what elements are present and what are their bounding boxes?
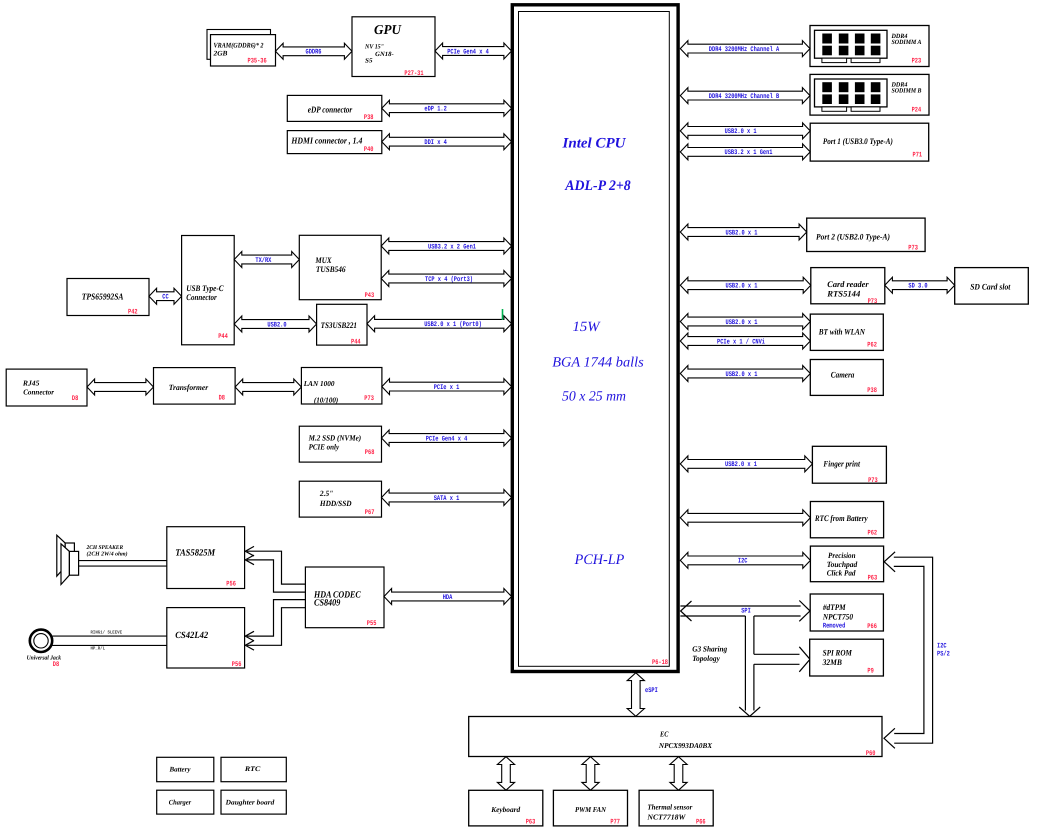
svg-text:USB2.0: USB2.0	[267, 321, 286, 329]
svg-text:Finger print: Finger print	[823, 459, 861, 469]
svg-text:HDD/SSD: HDD/SSD	[319, 499, 352, 508]
svg-text:Precision: Precision	[828, 551, 856, 560]
svg-text:Thermal sensor: Thermal sensor	[647, 803, 692, 812]
DDR4 SODIMM A block	[810, 26, 929, 67]
svg-text:NPCT750: NPCT750	[822, 611, 854, 621]
svg-text:EC: EC	[659, 730, 669, 739]
svg-text:PCIe Gen4 x 4: PCIe Gen4 x 4	[447, 48, 489, 56]
svg-text:D8: D8	[53, 661, 59, 669]
svg-text:P43: P43	[365, 292, 375, 300]
dTPM NPCT750 block	[810, 594, 883, 631]
CS42L42 block	[167, 608, 245, 669]
svg-text:Removed: Removed	[823, 622, 845, 631]
svg-text:PCIe x 1 / CNVi: PCIe x 1 / CNVi	[717, 337, 765, 346]
wire SPI channel down to EC	[739, 616, 760, 716]
svg-text:P27-31: P27-31	[404, 70, 423, 78]
svg-text:M.2 SSD (NVMe): M.2 SSD (NVMe)	[308, 434, 362, 443]
svg-text:2CH SPEAKER: 2CH SPEAKER	[86, 545, 124, 551]
svg-text:P68: P68	[365, 449, 375, 457]
svg-text:eSPI: eSPI	[645, 687, 658, 695]
svg-text:DDI x 4: DDI x 4	[424, 139, 446, 147]
svg-text:D8: D8	[219, 395, 225, 403]
svg-text:PWM FAN: PWM FAN	[575, 805, 607, 814]
VRAM GDDR6 block	[207, 30, 276, 67]
svg-text:USB2.0 x 1: USB2.0 x 1	[725, 128, 757, 136]
wire USB2.0 x1 Camera	[680, 366, 810, 382]
svg-text:P38: P38	[364, 114, 374, 122]
svg-text:Connector: Connector	[23, 387, 54, 396]
svg-text:P24: P24	[912, 106, 922, 114]
svg-text:SODIMM A: SODIMM A	[892, 39, 923, 46]
svg-text:SD Card slot: SD Card slot	[970, 282, 1011, 292]
MUX TUSB546 block	[299, 235, 381, 300]
svg-text:USB2.0 x 1: USB2.0 x 1	[726, 371, 758, 379]
wire I2C touchpad	[680, 552, 810, 568]
svg-text:15W: 15W	[573, 319, 601, 335]
svg-text:NCT7718W: NCT7718W	[646, 813, 686, 822]
wire audio HDA-TAS upper	[245, 546, 305, 584]
svg-text:P38: P38	[867, 387, 877, 395]
G3 Sharing Topology note	[692, 645, 727, 663]
svg-text:GDDR6: GDDR6	[306, 49, 322, 57]
wire USB2.0 x1 Port0	[367, 316, 512, 332]
svg-text:SODIMM B: SODIMM B	[892, 88, 923, 95]
svg-text:USB2.0 x 1: USB2.0 x 1	[726, 229, 758, 237]
wire audio HDA-TAS lower	[245, 555, 305, 592]
wire eDP 1.2	[382, 100, 512, 116]
wire EC-Keyboard	[497, 757, 514, 791]
svg-text:Port 1 (USB3.0 Type-A): Port 1 (USB3.0 Type-A)	[823, 136, 893, 146]
svg-text:USB2.0 x 1: USB2.0 x 1	[726, 319, 758, 327]
wire DDR4 Channel A	[680, 41, 810, 57]
svg-text:P44: P44	[218, 333, 228, 341]
wire EC-Thermal sensor	[670, 757, 687, 791]
CPU block U1 Intel ADL-P	[512, 5, 678, 672]
svg-text:P62: P62	[868, 529, 878, 537]
wire HDA	[384, 589, 512, 605]
BT with WLAN block	[810, 314, 883, 350]
wire audio HDA-CS42 upper	[245, 600, 305, 641]
svg-text:VRAM(GDDR6)* 2: VRAM(GDDR6)* 2	[214, 42, 264, 50]
svg-text:(2CH 2W/4 ohm): (2CH 2W/4 ohm)	[87, 551, 128, 558]
speaker label	[86, 545, 128, 558]
svg-text:USB2.0 x 1: USB2.0 x 1	[725, 461, 757, 469]
wire USB2.0 TypeC-TS3	[234, 316, 316, 332]
wire GDDR6 VRAM-GPU	[276, 43, 353, 59]
svg-text:RJ45: RJ45	[22, 379, 40, 388]
speaker icon	[57, 535, 79, 584]
svg-text:RTC: RTC	[244, 765, 261, 773]
svg-text:I2C: I2C	[738, 558, 748, 566]
wire EC-PWM FAN	[582, 757, 599, 791]
svg-text:P66: P66	[867, 623, 877, 631]
svg-text:RTC from Battery: RTC from Battery	[814, 513, 868, 523]
GPU block	[352, 17, 435, 78]
svg-text:P67: P67	[365, 509, 375, 517]
svg-text:I2C: I2C	[937, 642, 947, 650]
svg-text:(10/100): (10/100)	[314, 396, 339, 405]
svg-text:Camera: Camera	[831, 370, 855, 380]
Keyboard block	[469, 790, 543, 826]
svg-text:P35-36: P35-36	[248, 57, 267, 65]
svg-text:USB2.0 x 1: USB2.0 x 1	[726, 283, 758, 291]
svg-text:RTS5144: RTS5144	[826, 289, 860, 299]
svg-text:P73: P73	[868, 298, 878, 306]
Battery block	[157, 757, 214, 781]
svg-text:2GB: 2GB	[212, 50, 227, 58]
svg-text:P40: P40	[364, 146, 374, 154]
svg-text:P63: P63	[526, 819, 536, 827]
universal jack icon	[27, 630, 62, 670]
wire SATA x1	[382, 490, 512, 506]
wire I2C PS2 EC-Touchpad	[884, 552, 950, 749]
svg-text:Transformer: Transformer	[169, 383, 209, 392]
wire RTC battery	[680, 510, 810, 526]
wire USB3.2 x1 Gen1 Port1	[680, 144, 810, 160]
svg-text:S5: S5	[365, 58, 373, 65]
Finger print block	[812, 446, 886, 485]
svg-text:TX/RX: TX/RX	[255, 256, 272, 265]
svg-text:GN18-: GN18-	[375, 51, 394, 58]
svg-text:P56: P56	[226, 580, 236, 588]
svg-text:TAS5825M: TAS5825M	[175, 549, 215, 559]
svg-text:DDR4 3200MHz Channel A: DDR4 3200MHz Channel A	[709, 45, 780, 54]
wire PCIe x1 LAN-CPU	[382, 379, 512, 395]
svg-text:USB2.0 x 1 (Port0): USB2.0 x 1 (Port0)	[424, 320, 482, 329]
TAS5825M block	[167, 527, 245, 589]
Port1 USB3 Type-A block	[810, 123, 929, 161]
svg-text:D8: D8	[72, 395, 78, 403]
svg-text:Intel CPU: Intel CPU	[561, 135, 627, 151]
wire SD 3.0	[885, 277, 955, 293]
wire jack lines	[53, 630, 167, 652]
svg-text:PCIe x 1: PCIe x 1	[434, 384, 460, 392]
svg-text:eDP 1.2: eDP 1.2	[424, 106, 446, 114]
LAN 1000 block	[301, 368, 382, 405]
svg-text:PCIE only: PCIE only	[309, 442, 340, 451]
SPI ROM block	[810, 639, 884, 676]
svg-text:P44: P44	[351, 339, 361, 347]
HDA CODEC block	[305, 567, 384, 628]
svg-text:SATA x 1: SATA x 1	[434, 495, 460, 503]
svg-text:USB3.2 x 1 Gen1: USB3.2 x 1 Gen1	[725, 149, 773, 157]
svg-text:TCP x 4 (Port3): TCP x 4 (Port3)	[425, 275, 473, 284]
svg-text:HDA: HDA	[443, 594, 453, 602]
RTC from Battery block	[810, 502, 883, 538]
svg-text:G3 Sharing: G3 Sharing	[692, 645, 727, 654]
DDR4 SODIMM B block	[810, 74, 929, 115]
EC block NPCX993DA0BX	[469, 717, 882, 758]
RTC block	[221, 757, 286, 781]
svg-text:P73: P73	[868, 477, 878, 485]
svg-text:Card reader: Card reader	[827, 279, 869, 289]
Precision Touchpad block	[810, 546, 883, 582]
svg-text:32MB: 32MB	[822, 657, 842, 667]
svg-text:P63: P63	[868, 574, 878, 582]
svg-text:GPU: GPU	[374, 22, 402, 37]
svg-text:ADL-P 2+8: ADL-P 2+8	[564, 178, 631, 194]
svg-text:NPCX993DA0BX: NPCX993DA0BX	[658, 741, 713, 750]
wire Transformer-LAN	[235, 379, 301, 395]
svg-text:Click Pad: Click Pad	[827, 568, 857, 577]
svg-text:SPI: SPI	[741, 608, 751, 616]
2.5in HDD/SSD block	[299, 481, 381, 517]
wire TX/RX	[234, 252, 299, 268]
svg-text:PCIe Gen4 x 4: PCIe Gen4 x 4	[426, 435, 468, 443]
TS3USB221 block	[317, 304, 367, 346]
svg-text:TS3USB221: TS3USB221	[321, 320, 357, 330]
svg-text:Daughter board: Daughter board	[225, 798, 275, 806]
svg-text:Topology: Topology	[692, 654, 720, 663]
svg-text:CC: CC	[162, 294, 168, 302]
svg-text:HP_R/L: HP_R/L	[91, 646, 106, 652]
TPS65992SA block	[67, 279, 149, 317]
wire USB2.0 x1 Finger print	[680, 456, 812, 472]
SD Card slot block	[955, 268, 1029, 305]
svg-text:RING1/ SLEEVE: RING1/ SLEEVE	[91, 630, 123, 636]
svg-text:P60: P60	[866, 750, 876, 758]
svg-text:PS/2: PS/2	[937, 649, 950, 658]
RJ45 connector block	[6, 369, 87, 406]
svg-text:P77: P77	[610, 819, 620, 827]
svg-text:P62: P62	[867, 341, 877, 349]
node green marker	[502, 309, 504, 320]
Camera block	[810, 360, 883, 396]
wire PCIe x1 CNVi	[680, 333, 810, 349]
PWM FAN block	[553, 790, 627, 826]
Charger block	[157, 790, 214, 814]
wire USB3.2 x2 Gen1	[381, 238, 511, 254]
svg-text:2.5": 2.5"	[319, 489, 333, 498]
wire SPI branch to SPI ROM	[754, 647, 810, 672]
svg-text:HDMI connector , 1.4: HDMI connector , 1.4	[291, 135, 363, 145]
wire RJ45-Transformer	[87, 379, 154, 395]
wire DDR4 Channel B	[680, 88, 810, 104]
svg-text:BT with WLAN: BT with WLAN	[818, 327, 866, 337]
wire TCP x4 Port3	[381, 271, 511, 287]
svg-text:50 x 25 mm: 50 x 25 mm	[562, 389, 626, 405]
HDMI connector block	[287, 131, 382, 154]
Thermal sensor block	[639, 790, 713, 826]
wire USB2.0 x1 Port2	[680, 224, 806, 240]
svg-text:P56: P56	[232, 661, 242, 669]
svg-text:P6-18: P6-18	[652, 659, 668, 667]
svg-text:Battery: Battery	[169, 766, 192, 774]
Card reader RTS5144 block	[811, 268, 885, 306]
svg-text:Keyboard: Keyboard	[490, 805, 520, 814]
svg-text:LAN 1000: LAN 1000	[303, 379, 335, 388]
wire SPI dTPM	[680, 601, 810, 622]
wire PCIe Gen4 x4 SSD	[382, 430, 512, 446]
svg-text:Port 2 (USB2.0 Type-A): Port 2 (USB2.0 Type-A)	[816, 232, 890, 242]
svg-text:DDR4 3200MHz Channel B: DDR4 3200MHz Channel B	[709, 92, 780, 101]
wire USB2.0 x1 Port1	[680, 123, 810, 139]
eDP connector block	[287, 95, 382, 122]
svg-text:TUSB546: TUSB546	[316, 264, 346, 274]
Port2 USB2 Type-A block	[807, 218, 925, 252]
svg-text:CS8409: CS8409	[314, 599, 341, 609]
svg-text:P66: P66	[696, 819, 706, 827]
svg-text:P9: P9	[867, 668, 873, 676]
svg-text:BGA 1744 balls: BGA 1744 balls	[552, 355, 644, 371]
svg-text:P42: P42	[128, 309, 138, 317]
svg-text:P71: P71	[913, 151, 923, 159]
svg-text:P73: P73	[364, 395, 374, 403]
wire USB2.0 x1 BT	[680, 314, 810, 330]
wire speaker lines	[79, 561, 167, 567]
wire CC	[149, 288, 182, 304]
svg-text:USB3.2 x 2 Gen1: USB3.2 x 2 Gen1	[428, 243, 476, 251]
wire PCIe Gen4 x4 GPU-CPU	[435, 43, 512, 59]
wire eSPI CPU-EC	[627, 673, 658, 717]
wire USB2.0 x1 Card reader	[680, 277, 811, 293]
Daughter board block	[221, 790, 286, 814]
svg-text:eDP connector: eDP connector	[308, 105, 353, 115]
wire DDI x4	[382, 134, 512, 150]
Transformer block	[154, 368, 236, 405]
svg-text:SD 3.0: SD 3.0	[908, 283, 927, 291]
svg-text:PCH-LP: PCH-LP	[574, 552, 625, 568]
svg-text:Connector: Connector	[186, 292, 217, 302]
svg-text:Charger: Charger	[169, 799, 192, 807]
svg-text:NV 15": NV 15"	[364, 44, 384, 51]
svg-text:SPI ROM: SPI ROM	[823, 647, 853, 657]
M.2 SSD block	[299, 426, 381, 462]
svg-text:CS42L42: CS42L42	[175, 631, 208, 641]
svg-text:P55: P55	[367, 620, 377, 628]
wire audio HDA-CS42 lower	[245, 608, 305, 650]
svg-text:P73: P73	[908, 244, 918, 252]
svg-text:P23: P23	[912, 58, 922, 66]
svg-text:TPS65992SA: TPS65992SA	[82, 292, 124, 302]
USB Type-C connector block	[182, 236, 235, 345]
